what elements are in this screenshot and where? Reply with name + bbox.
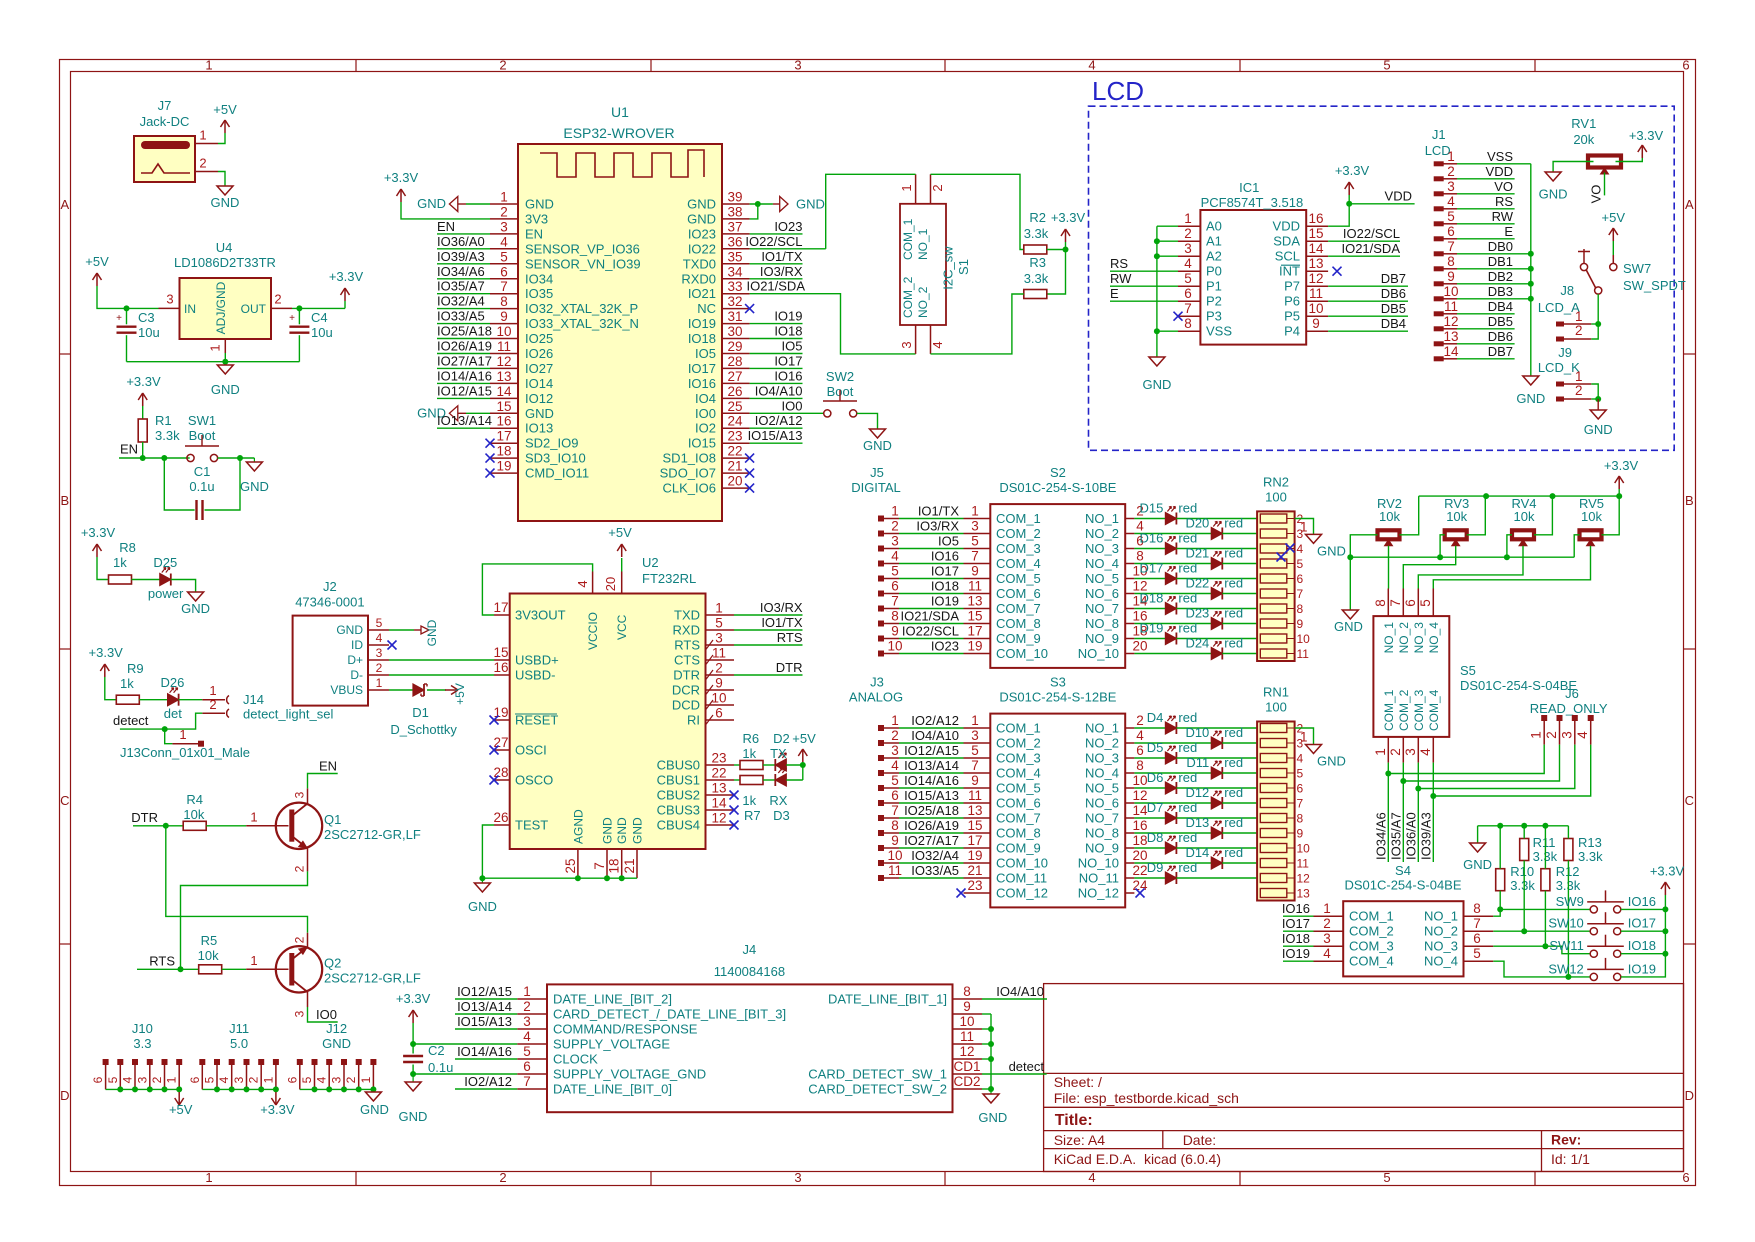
junction R2/R3/+3.3V (1063, 247, 1069, 253)
svg-text:12: 12 (1308, 271, 1323, 286)
wire D25 to GND (171, 580, 196, 593)
wire/label IO26/A19 J3 to S3 (899, 832, 964, 834)
svg-text:IO16: IO16 (1282, 901, 1310, 916)
svg-text:D9: D9 (1147, 860, 1164, 875)
svg-text:B: B (60, 493, 69, 508)
wire S2 NO_10 to LED (1134, 653, 1211, 655)
ground GND at RV1 (1545, 172, 1561, 181)
wire/label IO34/A6 at U1 pin 6 (437, 278, 490, 280)
wire/label IO3/RX at U1 pin 34 (750, 278, 803, 280)
svg-text:IO21/SDA: IO21/SDA (900, 609, 959, 624)
svg-text:COM_4: COM_4 (1427, 689, 1441, 731)
svg-text:3: 3 (135, 1076, 149, 1083)
svg-text:IO17: IO17 (931, 564, 959, 579)
resistor R9 1k (116, 695, 139, 704)
svg-text:5: 5 (971, 743, 979, 758)
svg-text:red: red (1224, 606, 1243, 621)
pin 15 of U1 GND (490, 412, 518, 414)
svg-text:SW7: SW7 (1623, 261, 1651, 276)
svg-text:1: 1 (1575, 369, 1583, 384)
LED D17 red (1165, 573, 1176, 585)
wire S5 COM_1 to J6 pin1 (1387, 763, 1389, 862)
svg-text:VCC: VCC (615, 614, 629, 640)
svg-text:VCCIO: VCCIO (586, 612, 600, 650)
svg-text:2: 2 (1388, 748, 1403, 756)
svg-text:IO5: IO5 (938, 534, 959, 549)
svg-text:IO4: IO4 (695, 391, 716, 406)
svg-text:3: 3 (293, 1010, 307, 1017)
no-connect at U1 pin 18 (486, 454, 495, 463)
svg-text:IO34/A6: IO34/A6 (1373, 812, 1388, 860)
wire/label IO1/TX at U2 RXD (734, 629, 803, 631)
pin 14 of IC1 SCL (1306, 255, 1328, 257)
svg-text:4: 4 (1418, 748, 1433, 756)
ground GND at RV rail (1349, 557, 1351, 610)
svg-text:1: 1 (205, 58, 212, 73)
pin 13 of J1 DB6 (1434, 341, 1444, 346)
wire J10 bus (106, 1088, 180, 1090)
wire J14 pin2 to detect node (120, 713, 202, 729)
svg-text:NO_9: NO_9 (1085, 631, 1119, 646)
svg-text:15: 15 (967, 609, 982, 624)
pin 1 of IC1 A0 (1178, 225, 1200, 227)
wire J7 pin2 to GND (218, 172, 225, 187)
svg-text:7: 7 (523, 1074, 531, 1089)
junction (258, 1086, 264, 1092)
junction A2 (1154, 253, 1160, 259)
wire/label RW at IC1 P1 (1110, 285, 1178, 287)
pin 11 of J4 NC (953, 1043, 983, 1045)
svg-text:LCD_A: LCD_A (1538, 300, 1580, 315)
svg-text:EN: EN (437, 219, 455, 234)
wire S3 NO_11 to LED (1134, 877, 1165, 879)
svg-text:D_Schottky: D_Schottky (390, 722, 457, 737)
svg-text:red: red (1178, 770, 1197, 785)
LED D11 red (1211, 767, 1222, 779)
ground GND at J7 (217, 186, 233, 195)
pin 4 of J4 SUPPLY_VOLTAGE (517, 1043, 547, 1045)
svg-text:Title:: Title: (1055, 1112, 1093, 1129)
wire/label DTR at U2 DTR (734, 674, 803, 676)
junction (244, 1086, 250, 1092)
wire IC1 VDD to +3.3V (1328, 204, 1349, 226)
no-connect S3 NO_12 (1136, 889, 1145, 898)
svg-text:4: 4 (891, 758, 899, 773)
pin 19 of U1 CMD_IO11 (490, 472, 518, 474)
pin 5 of J3 (878, 785, 884, 791)
svg-text:20: 20 (1132, 639, 1147, 654)
svg-text:+: + (116, 313, 122, 324)
pin 2 of S3 NO_1 (1125, 727, 1134, 729)
wire rail to R10 (1499, 826, 1501, 869)
svg-text:31: 31 (727, 309, 742, 324)
pin 2 of IC1 A1 (1178, 240, 1200, 242)
svg-text:7: 7 (1297, 797, 1304, 811)
svg-text:NO_4: NO_4 (1427, 622, 1441, 654)
pin 3 of IC1 A2 (1178, 255, 1200, 257)
wire S5 COM_3 to J6 pin3 (1417, 763, 1419, 862)
svg-text:4: 4 (376, 631, 383, 645)
regulator U4 LD1086D2T33TR (180, 278, 272, 339)
svg-text:12: 12 (496, 354, 511, 369)
svg-text:DB2: DB2 (1488, 269, 1513, 284)
svg-text:IO18: IO18 (1628, 938, 1656, 953)
wire rail to R13 (1567, 826, 1569, 839)
pin 27 of U1 IO16 (722, 382, 750, 384)
pin 9 of U1 IO33_XTAL_32K_N (490, 323, 518, 325)
resistor element 12 of RN1 (1260, 889, 1287, 898)
svg-text:1: 1 (165, 1076, 179, 1083)
svg-text:GND: GND (322, 1036, 351, 1051)
svg-text:7: 7 (891, 803, 899, 818)
svg-text:D22: D22 (1185, 576, 1209, 591)
svg-text:NO_3: NO_3 (1412, 622, 1426, 654)
junction GND pin7 (604, 875, 610, 881)
wire/label DB4 at J1 (1457, 313, 1515, 315)
wire CBUS0 to R6 (734, 764, 740, 766)
wire/label DB5 at IC1 (1328, 315, 1408, 317)
wire LED to RN2 (1222, 563, 1260, 565)
junction (176, 1086, 182, 1092)
svg-text:RTS: RTS (777, 630, 803, 645)
wire/label DB2 at J1 (1457, 283, 1531, 285)
pin 7 of S4 NO_2 (1464, 930, 1494, 932)
svg-text:37: 37 (727, 219, 742, 234)
svg-text:GND: GND (615, 817, 629, 844)
svg-text:21: 21 (727, 459, 742, 474)
svg-text:J1: J1 (1432, 127, 1446, 142)
svg-text:IO26/A19: IO26/A19 (437, 339, 492, 354)
svg-text:5: 5 (1297, 557, 1304, 571)
pin 2 of J8 (1556, 337, 1564, 342)
LED D19 red (1165, 633, 1176, 645)
wire SW12 to +3.3V bus (1621, 909, 1666, 977)
svg-text:1: 1 (971, 504, 979, 519)
antenna meander inside U1 (540, 150, 704, 177)
svg-text:IO34: IO34 (525, 271, 553, 286)
svg-text:4: 4 (1447, 194, 1455, 209)
svg-text:4: 4 (1575, 731, 1590, 739)
pin 10 of S3 NO_5 (1125, 787, 1134, 789)
wire +3.3V rail (1419, 495, 1620, 497)
svg-text:COM_6: COM_6 (996, 586, 1041, 601)
svg-text:3: 3 (376, 646, 383, 660)
svg-text:4: 4 (891, 549, 899, 564)
wire SW7 common to J8 (1597, 294, 1599, 324)
transistor Q2 2SC2712-GR,LF (276, 946, 322, 992)
svg-text:3: 3 (971, 728, 979, 743)
svg-text:3: 3 (715, 631, 723, 646)
svg-text:19: 19 (967, 848, 982, 863)
wire LED to RN2 (1176, 608, 1260, 610)
wire +3.3V to J4 SUPPLY_VOLTAGE (413, 1043, 517, 1045)
wire/label IO13/A14 J3 to S3 (899, 772, 964, 774)
hierarchical label GND at J2 (414, 629, 421, 631)
svg-text:3: 3 (891, 534, 899, 549)
junction SW10 bus (1662, 928, 1668, 934)
wire R2 to +3.3V junction (1047, 249, 1066, 251)
svg-text:7: 7 (971, 758, 979, 773)
junction (1430, 793, 1436, 799)
pin 11 of U2 CTS (706, 659, 735, 661)
no-connect marks near RN2 (1286, 544, 1295, 553)
svg-text:red: red (1224, 576, 1243, 591)
svg-text:File: esp_testborde.kicad_sch: File: esp_testborde.kicad_sch (1054, 1090, 1239, 1106)
LED D4 red (1165, 722, 1176, 734)
pin 10 of U2 DCD (706, 704, 735, 706)
svg-text:NO_12: NO_12 (1078, 886, 1119, 901)
junction SW11 bus (1662, 951, 1668, 957)
svg-text:1: 1 (891, 713, 899, 728)
svg-text:R13: R13 (1578, 835, 1602, 850)
svg-text:13: 13 (967, 803, 982, 818)
wire LED to RN2 (1222, 623, 1260, 625)
resistor element 4 of RN2 (1260, 559, 1287, 568)
no-connect IC1 INT (1333, 267, 1342, 276)
pin 13 of U2 CBUS2 (706, 794, 735, 796)
wire R3 to S1 pin4 (931, 294, 1024, 354)
svg-text:IO36/A0: IO36/A0 (1403, 812, 1418, 860)
svg-text:D13: D13 (1185, 815, 1209, 830)
svg-text:NO_4: NO_4 (1424, 954, 1458, 969)
svg-text:R5: R5 (201, 933, 218, 948)
svg-text:C: C (60, 793, 69, 808)
wire J11 bus (202, 1088, 276, 1090)
pin 2 of S4 COM_2 (1314, 930, 1344, 932)
pin 9 of J5 (878, 636, 884, 642)
svg-text:LD1086D2T33TR: LD1086D2T33TR (174, 255, 276, 270)
svg-text:CBUS0: CBUS0 (657, 758, 700, 773)
pin 1 of J1 VSS (1434, 161, 1444, 166)
svg-text:4: 4 (121, 1076, 135, 1083)
svg-text:10: 10 (496, 324, 511, 339)
svg-text:IO14: IO14 (525, 376, 553, 391)
svg-text:16: 16 (1132, 818, 1147, 833)
junction (1437, 554, 1443, 560)
svg-text:GND: GND (417, 196, 446, 211)
svg-text:DB7: DB7 (1488, 344, 1513, 359)
svg-text:1: 1 (1529, 731, 1544, 739)
junction (273, 1086, 279, 1092)
svg-text:6: 6 (1297, 572, 1304, 586)
junction J4 bus (988, 1041, 994, 1047)
svg-text:2SC2712-GR,LF: 2SC2712-GR,LF (324, 971, 421, 986)
svg-text:J9: J9 (1558, 345, 1572, 360)
wire RV5 wiper to S5 (1433, 546, 1590, 589)
svg-text:2: 2 (247, 1076, 261, 1083)
svg-text:GND: GND (336, 623, 363, 637)
wire S5 COM_2 to J6 pin2 (1402, 763, 1404, 862)
pin 5 of J11 (214, 1059, 220, 1065)
switch S5 DS01C-254-S-04BE (1373, 616, 1449, 737)
svg-text:5: 5 (1473, 946, 1481, 961)
wire/label IO16 J5 to S2 (899, 563, 964, 565)
svg-text:13: 13 (711, 781, 726, 796)
svg-text:GND: GND (525, 406, 554, 421)
wire/label IO13/A14 at J4 pin 2 (455, 1013, 517, 1015)
svg-text:IO1/TX: IO1/TX (761, 615, 803, 630)
svg-text:3: 3 (523, 1014, 531, 1029)
pin 5 of S5 NO_4 (1432, 589, 1434, 617)
svg-text:10u: 10u (311, 325, 333, 340)
svg-text:2: 2 (199, 156, 206, 171)
svg-text:6: 6 (188, 1076, 202, 1083)
wire S3 NO_7 to LED (1134, 817, 1165, 819)
svg-text:IO35/A7: IO35/A7 (437, 279, 485, 294)
pin 9 of J4 NC (953, 1013, 983, 1015)
svg-text:D15: D15 (1140, 501, 1164, 516)
pin 5 of S4 NO_4 (1464, 960, 1494, 962)
svg-text:2: 2 (1575, 323, 1583, 338)
svg-text:8: 8 (1184, 316, 1192, 331)
svg-text:IO3/RX: IO3/RX (916, 519, 959, 534)
svg-text:+3.3V: +3.3V (384, 170, 419, 185)
potentiometer RV2 10k (1378, 530, 1400, 539)
resistor R11 3.3k (1520, 839, 1529, 861)
svg-text:J8: J8 (1560, 283, 1574, 298)
svg-text:SW12: SW12 (1548, 961, 1583, 976)
ground GND at J12 (372, 1089, 374, 1092)
LED D23 red (1211, 618, 1222, 630)
junction J4 bus (988, 1056, 994, 1062)
pin 20 of U1 CLK_IO6 (722, 487, 750, 489)
svg-text:J14: J14 (243, 692, 264, 707)
svg-text:35: 35 (727, 249, 742, 264)
svg-text:R11: R11 (1533, 835, 1556, 850)
svg-text:DB4: DB4 (1381, 316, 1406, 331)
svg-text:D6: D6 (1147, 770, 1164, 785)
svg-text:23: 23 (711, 751, 726, 766)
wire R1 to EN node (142, 442, 144, 458)
svg-text:13: 13 (1308, 256, 1323, 271)
wire Q1 emitter to RTS node (181, 871, 308, 969)
svg-text:28: 28 (727, 354, 742, 369)
power +5V at U2 VCC (see above) (621, 556, 623, 558)
svg-text:11: 11 (1309, 286, 1323, 301)
pin CD2 of J4 CARD_DETECT_SW_2 (953, 1088, 983, 1090)
wire U2 ground rail (482, 877, 637, 879)
pin 3 of J12 (341, 1059, 347, 1065)
pin 1 of U4 ADJ/GND (224, 339, 226, 353)
pin 6 of S5 NO_3 (1417, 589, 1419, 617)
wire J2 D- to U2 USBD- (389, 674, 494, 676)
wire/label DB5 at J1 (1457, 328, 1515, 330)
svg-text:1k: 1k (113, 555, 127, 570)
svg-text:1: 1 (1300, 730, 1308, 745)
svg-text:D7: D7 (1147, 800, 1164, 815)
wire D1 to +5V (427, 689, 446, 691)
wire S5 COM_4 to J6 pin4 (1432, 763, 1434, 862)
svg-text:D19: D19 (1140, 621, 1164, 636)
wire S2 NO_9 to LED (1134, 638, 1165, 640)
pin 1 of J9 (1556, 382, 1564, 387)
junction ADJ/GND rail (222, 359, 228, 365)
wire/label IO22/SCL J5 to S2 (899, 638, 964, 640)
svg-text:Rev:: Rev: (1551, 1132, 1581, 1148)
svg-text:IO16: IO16 (774, 368, 802, 383)
wire/label IO12/A15 at J4 pin 1 (455, 998, 517, 1000)
ground GND at SW2 (870, 429, 886, 438)
connector J4 1140084168 (547, 984, 953, 1112)
pin 2 of U1 3V3 (490, 218, 518, 220)
svg-text:3.3k: 3.3k (1024, 226, 1049, 241)
wire S3 NO_10 to LED (1134, 862, 1211, 864)
svg-text:5: 5 (300, 1076, 314, 1083)
svg-text:C1: C1 (194, 464, 211, 479)
junction C2 bottom (410, 1071, 416, 1077)
pin 6 of S4 NO_3 (1464, 945, 1494, 947)
svg-text:COM_8: COM_8 (996, 826, 1041, 841)
wire LED to RN1 (1176, 757, 1260, 759)
svg-text:9: 9 (1297, 617, 1304, 631)
svg-text:IO33_XTAL_32K_N: IO33_XTAL_32K_N (525, 316, 639, 331)
wire IO21/SDA to S1 (750, 294, 916, 354)
svg-text:DB0: DB0 (1488, 239, 1513, 254)
pin 12 of J4 NC (953, 1058, 983, 1060)
wire DTR node to Q2 collector (166, 826, 308, 933)
pin 3 of J10 (147, 1059, 153, 1065)
svg-text:U4: U4 (216, 240, 233, 255)
svg-text:NO_8: NO_8 (1085, 616, 1119, 631)
label RTS wire (137, 968, 199, 970)
wire J2 GND to GND label (389, 629, 414, 631)
wire/label IO19 at U1 pin 31 (750, 323, 803, 325)
svg-text:DATE_LINE_[BIT_0]: DATE_LINE_[BIT_0] (553, 1082, 672, 1097)
no-connect CBUS2 (730, 791, 739, 800)
svg-text:5: 5 (1297, 767, 1304, 781)
svg-text:IO26: IO26 (525, 346, 553, 361)
svg-text:red: red (1224, 755, 1243, 770)
wire LED to RN1 (1222, 772, 1260, 774)
svg-text:Jack-DC: Jack-DC (140, 114, 190, 129)
svg-text:DATE_LINE_[BIT_2]: DATE_LINE_[BIT_2] (553, 992, 672, 1007)
svg-text:7: 7 (1473, 916, 1481, 931)
svg-text:SW2: SW2 (826, 369, 854, 384)
svg-text:TEST: TEST (515, 818, 548, 833)
wire/label IO18 J5 to S2 (899, 593, 964, 595)
LED D21 red (1211, 558, 1222, 570)
svg-text:15: 15 (496, 399, 511, 414)
pin 4 of S2 NO_2 (1125, 533, 1134, 535)
wire/label DB3 at J1 (1457, 298, 1531, 300)
diode D1 D_Schottky (413, 684, 424, 696)
ground GND at SW1 (253, 458, 255, 462)
svg-text:COM_1: COM_1 (901, 218, 915, 260)
svg-text:IO26/A19: IO26/A19 (904, 818, 959, 833)
svg-text:RS: RS (1110, 256, 1128, 271)
wire IO0 to SW2 (750, 412, 824, 414)
svg-text:6: 6 (1136, 743, 1144, 758)
svg-text:IO13/A14: IO13/A14 (904, 758, 959, 773)
svg-text:GND: GND (1539, 187, 1568, 202)
pin 12 of U2 CBUS4 (706, 824, 735, 826)
pin 7 of J1 DB0 (1434, 251, 1444, 256)
svg-text:15: 15 (967, 818, 982, 833)
svg-text:1140084168: 1140084168 (714, 964, 785, 979)
svg-text:4: 4 (217, 1076, 231, 1083)
svg-text:0.1u: 0.1u (189, 479, 214, 494)
pin 5 of J5 (878, 576, 884, 582)
wire LED to RN2 (1222, 653, 1260, 655)
svg-text:5: 5 (1184, 271, 1192, 286)
pin 9 of U2 DCR (706, 689, 735, 691)
svg-text:D10: D10 (1185, 725, 1209, 740)
svg-text:red: red (1224, 785, 1243, 800)
svg-text:J12: J12 (326, 1021, 347, 1036)
svg-text:6: 6 (1682, 1170, 1689, 1185)
svg-text:GND: GND (1463, 857, 1492, 872)
svg-text:C3: C3 (138, 310, 155, 325)
